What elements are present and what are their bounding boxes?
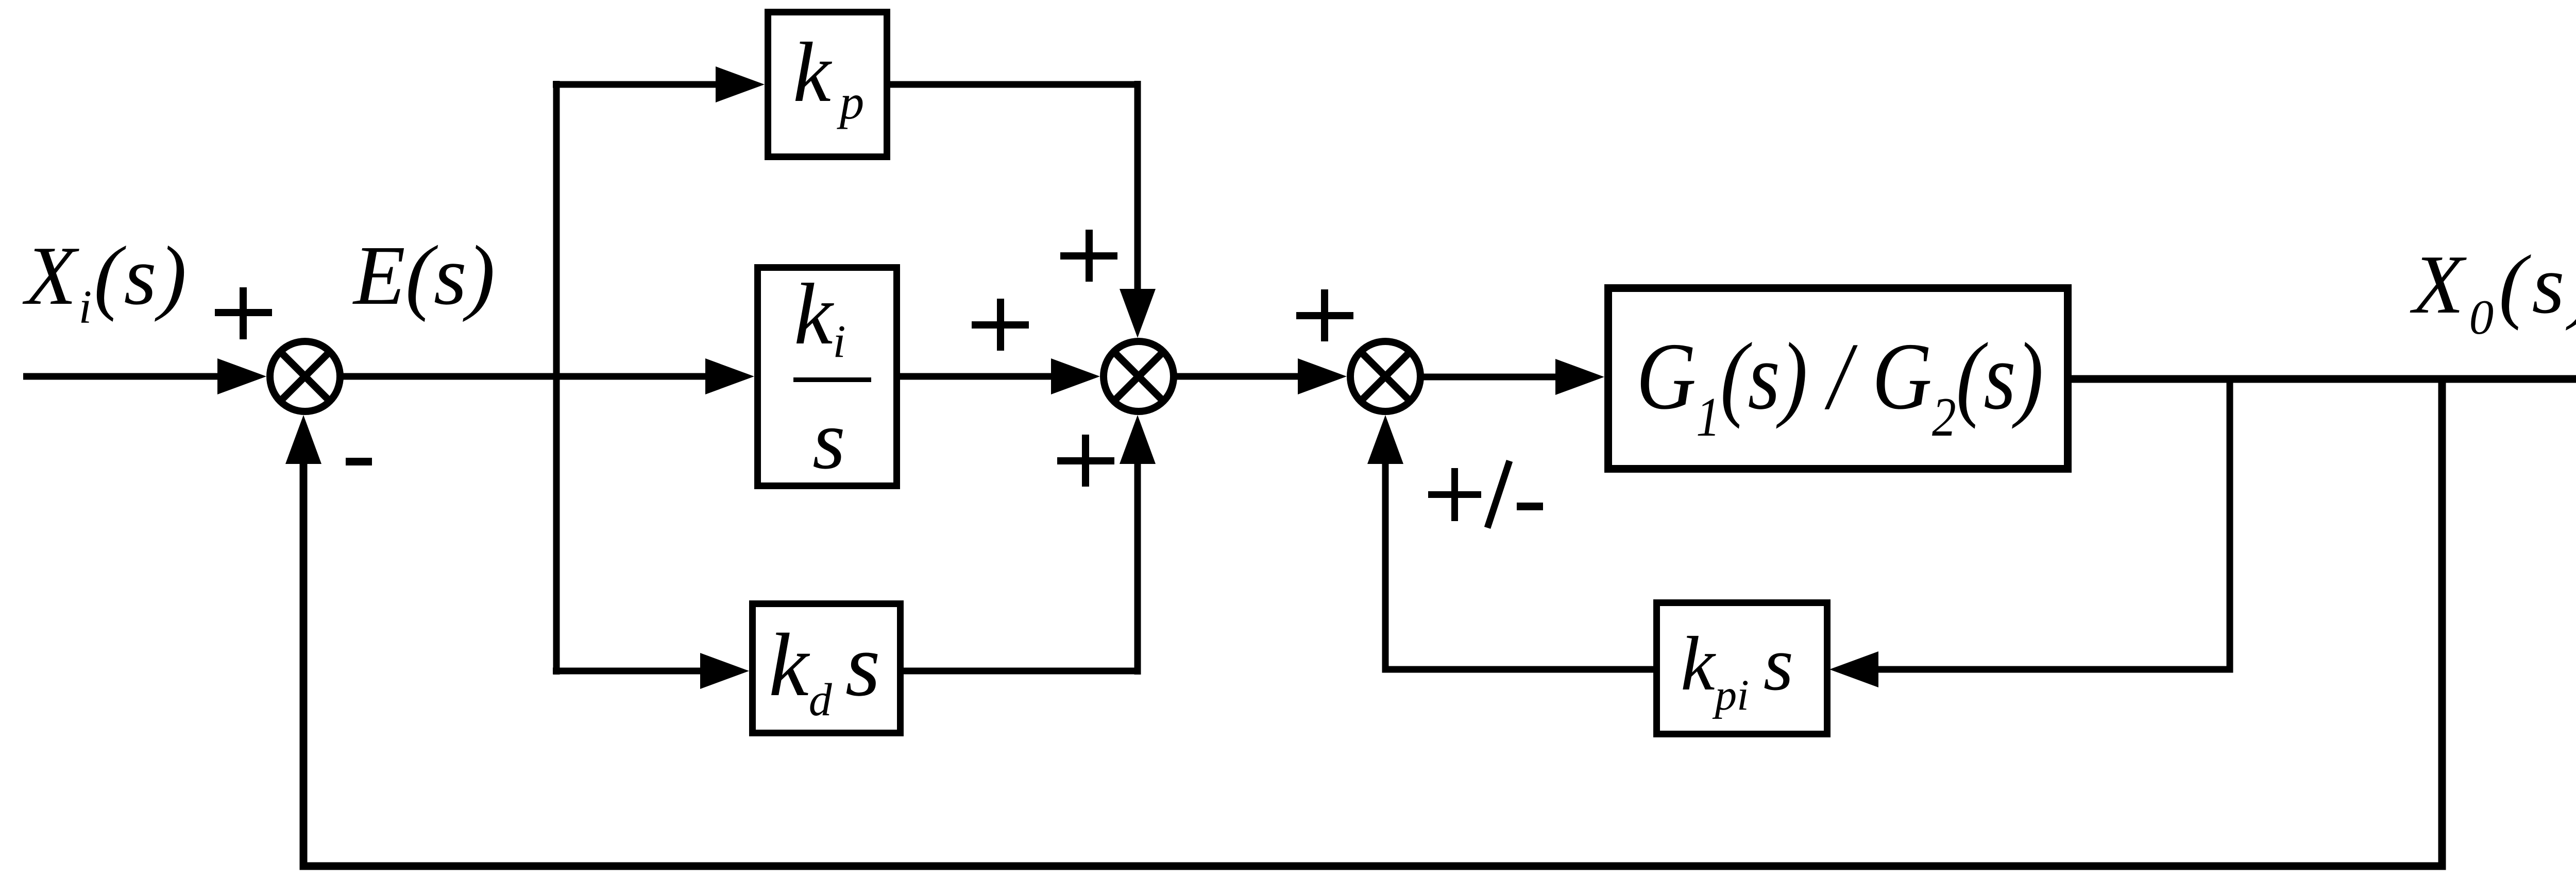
block KD kd s xyxy=(753,604,901,733)
block KI ki/s xyxy=(758,268,897,486)
wire S1 to summing junction S2 xyxy=(340,373,707,380)
plus/minus sign at S3 bottom input xyxy=(1428,491,1481,498)
wire top branch to block KP xyxy=(553,81,717,88)
wire KPI output to S3 bottom input xyxy=(1385,464,1654,669)
plus sign at S2 left input xyxy=(972,321,1029,329)
wire outer feedback node B down and back to S1 xyxy=(303,379,2442,866)
plus sign at S2 top input xyxy=(1060,252,1117,260)
wire S3 to block G xyxy=(1420,374,1558,381)
svg-text:Xi(s): Xi(s) xyxy=(22,230,189,333)
plus sign at S1 input xyxy=(215,309,272,316)
wire KI output to S2 left input xyxy=(900,373,1054,380)
minus sign at S1 feedback input xyxy=(346,458,372,465)
svg-text:E(s): E(s) xyxy=(352,228,495,322)
plus sign at S2 bottom input xyxy=(1057,457,1114,464)
wire G output to right edge xyxy=(2072,375,2576,383)
block KPI kpi s xyxy=(1657,603,1827,734)
svg-text:s: s xyxy=(812,393,845,487)
wire S2 to summing junction S3 xyxy=(1174,373,1300,380)
wire KP output to S2 top input xyxy=(890,81,1141,291)
summing junction S2 xyxy=(1104,341,1174,411)
block G G1(s)/G2(s) xyxy=(1608,288,2068,469)
summing junction S1 xyxy=(270,341,340,411)
summing junction S3 xyxy=(1350,341,1420,411)
wire tap node A down to block KPI xyxy=(1878,379,2230,669)
wire bottom branch to block KD xyxy=(553,668,702,675)
wire KD output to S2 bottom input xyxy=(904,464,1141,675)
wire arrow into block KI xyxy=(705,358,754,394)
wire branch vertical at node E xyxy=(553,81,560,675)
wire input Xi(s) to summing junction S1 xyxy=(23,373,227,380)
plus sign at S3 left input xyxy=(1296,312,1353,319)
block KP kp xyxy=(768,12,887,157)
